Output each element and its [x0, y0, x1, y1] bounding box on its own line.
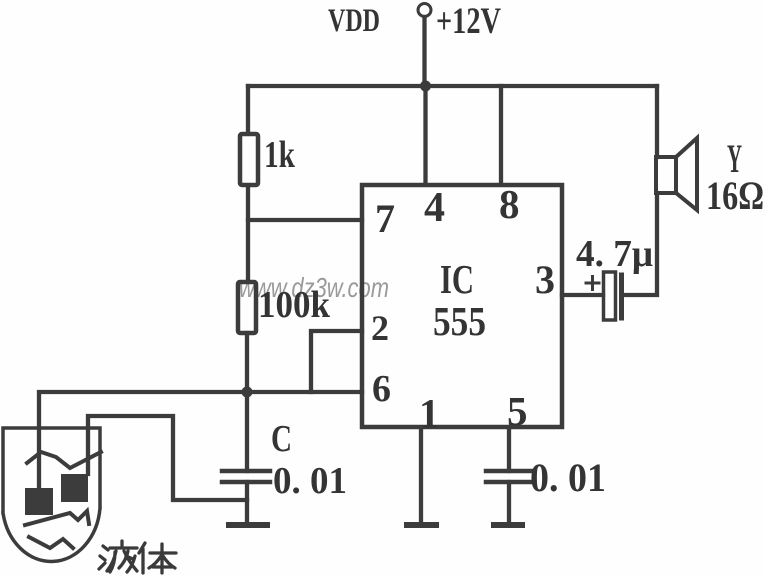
- wire pin 1 to ground: [419, 428, 423, 523]
- svg-text:7: 7: [375, 196, 395, 241]
- wire right electrode to ground node: [88, 416, 247, 500]
- wire 100k to sense junction: [245, 333, 249, 392]
- wire pin 3 to capacitor 4.7u: [562, 293, 603, 297]
- capacitor 0.01 at pin 5: [486, 471, 532, 482]
- wire terminal to VDD rail: [422, 17, 426, 84]
- IC U1 555 box: [362, 185, 562, 427]
- power terminal +12V: [418, 4, 431, 17]
- capacitor C 0.01: [222, 471, 270, 482]
- svg-text:3: 3: [535, 257, 555, 302]
- svg-text:0. 01: 0. 01: [530, 455, 606, 500]
- wire junction to pin 6: [247, 390, 362, 394]
- wire 1k to 100k: [246, 186, 250, 281]
- svg-text:IC: IC: [440, 256, 474, 302]
- svg-text:2: 2: [371, 308, 389, 348]
- wire rail to speaker top: [655, 86, 659, 157]
- electrode right: [61, 474, 88, 502]
- liquid container vessel: [3, 428, 100, 561]
- svg-text:555: 555: [433, 298, 486, 344]
- resistor 100k: [238, 282, 256, 333]
- wire rail to pin 8: [499, 86, 503, 183]
- wire junction to capacitor C: [245, 392, 249, 471]
- wire rail to resistor 1k: [246, 86, 250, 133]
- liquid middle line: [25, 511, 89, 525]
- svg-text:4: 4: [424, 185, 445, 231]
- liquid surface line: [27, 452, 101, 468]
- svg-text:0. 01: 0. 01: [273, 460, 347, 502]
- svg-text:4. 7μ: 4. 7μ: [576, 233, 653, 275]
- svg-text:+12V: +12V: [436, 1, 501, 42]
- wire sense junction to left electrode: [39, 392, 247, 488]
- svg-text:100k: 100k: [258, 284, 331, 326]
- junction rail / pin 4: [420, 81, 431, 92]
- wire capacitor to ground: [507, 482, 511, 523]
- wire C to ground: [245, 482, 249, 523]
- capacitor 4.7u electrolytic: [604, 272, 622, 320]
- svg-text:C: C: [271, 418, 292, 460]
- wire to pin 7: [248, 218, 362, 222]
- svg-text:8: 8: [499, 181, 520, 227]
- VDD rail wire: [248, 84, 657, 88]
- polarity plus mark: [586, 277, 599, 290]
- junction sense node: [242, 387, 253, 398]
- wire rail to pin 4: [423, 86, 427, 183]
- svg-text:VDD: VDD: [328, 3, 380, 39]
- speaker Y: [656, 138, 697, 210]
- svg-text:16Ω: 16Ω: [706, 173, 764, 218]
- liquid bottom line: [29, 537, 73, 548]
- label liquid 液体: [99, 541, 176, 573]
- electrode left: [25, 488, 53, 515]
- svg-text:6: 6: [372, 368, 391, 410]
- wire pin 2 jog to pin 6 net: [311, 331, 362, 392]
- ground below pin 5: [494, 522, 522, 528]
- svg-text:1k: 1k: [264, 134, 296, 176]
- resistor 1k: [240, 134, 258, 185]
- ground below pin 1: [407, 522, 436, 528]
- wire pin 5 to capacitor 0.01: [507, 428, 511, 471]
- ground below C: [229, 522, 267, 528]
- wire 4.7u to speaker bottom: [626, 193, 657, 295]
